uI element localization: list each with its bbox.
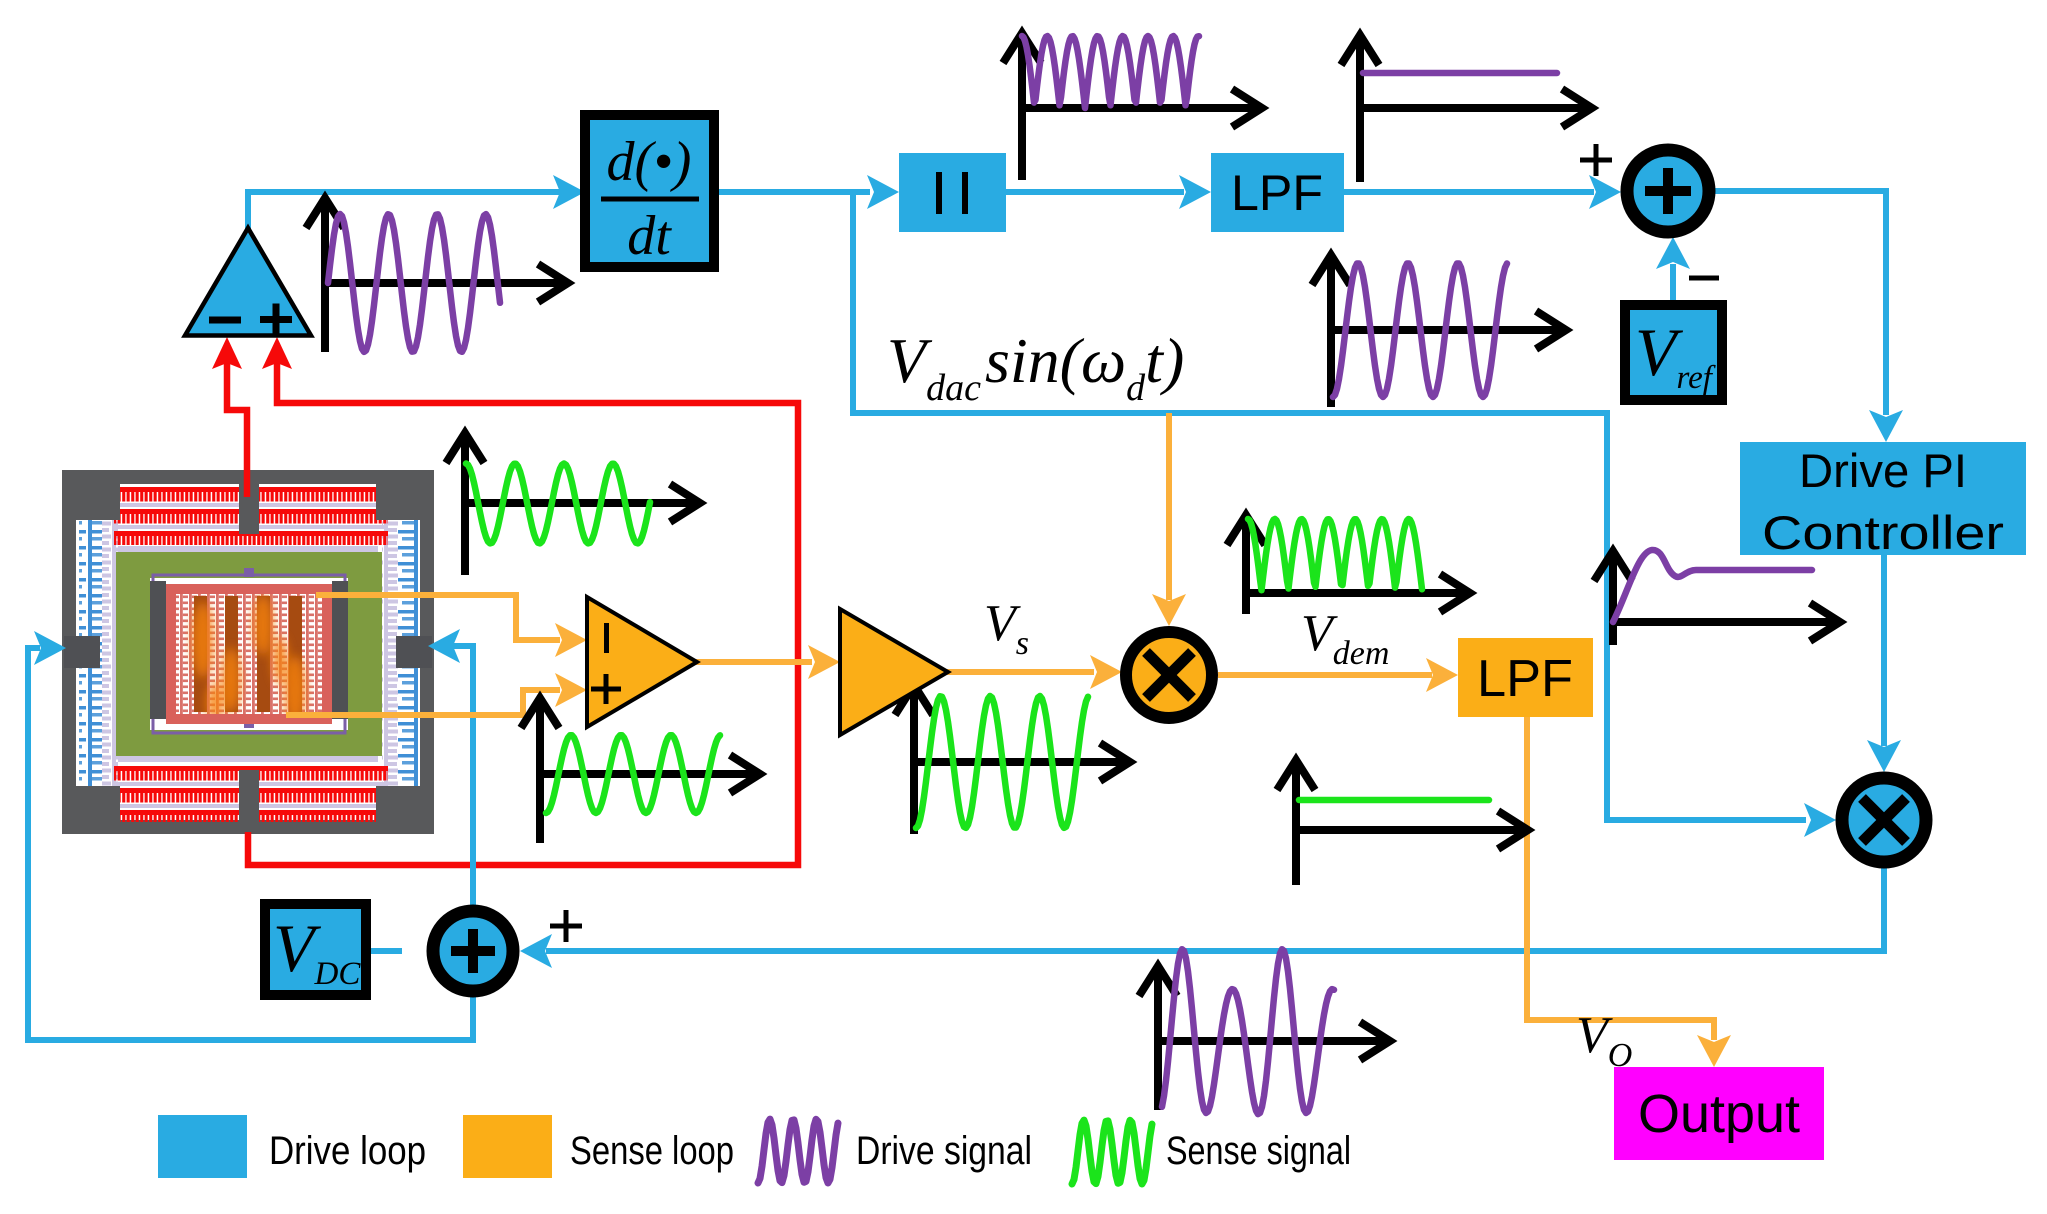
op-amp A1: instrumentation amplifier (orange) — [587, 597, 697, 727]
legend: Sense loop swatch — [463, 1115, 552, 1178]
graph: drive displacement sine (purple) at op-amp output — [321, 204, 329, 352]
graph: DC amplitude level after LPF — [1356, 41, 1364, 182]
svg-text:Sense loop: Sense loop — [570, 1129, 734, 1173]
block: absolute value | | — [899, 153, 1006, 232]
wire drive: LPF to summing junction — [1344, 189, 1594, 195]
amplifier A2: sense gain stage (orange) — [840, 609, 948, 735]
svg-text:d(•): d(•) — [607, 131, 692, 193]
wire drive: summer up to die right drive electrode — [452, 646, 473, 907]
svg-text:dt: dt — [627, 205, 672, 267]
wire drive: differentiator to absolute-value block — [714, 189, 870, 195]
label: minus sign at S1 — [1689, 276, 1719, 281]
block: Output — [1614, 1067, 1824, 1160]
wire sense: die sense electrode A to instrumentation amp minus — [316, 595, 560, 640]
svg-text:LPF: LPF — [1231, 165, 1323, 221]
block: sense LPF — [1458, 638, 1593, 717]
multiplier M1: sense demodulator (orange) — [1126, 632, 1212, 718]
svg-text:LPF: LPF — [1477, 650, 1573, 708]
block: VDC bias source — [265, 904, 366, 995]
graph: Vdac sine reference (purple) — [1327, 261, 1335, 407]
wire sense: LPF output Vo to Output block — [1527, 717, 1714, 1040]
wire sense: die sense electrode B to instrumentation amp plus — [286, 690, 560, 715]
block: drive LPF — [1211, 153, 1344, 232]
wire drive: summer down and around to die left drive electrode — [28, 648, 473, 1040]
label: plus sign at S2 — [550, 924, 582, 929]
legend: Sense signal green wave — [1072, 1120, 1152, 1184]
summing junction S1 (drive amplitude error) — [1627, 150, 1709, 232]
block: Vref reference — [1625, 305, 1722, 400]
svg-text:Output: Output — [1638, 1084, 1800, 1144]
wire red: die bottom electrode feedback loop to op-amp non-inverting input — [248, 360, 798, 865]
wire sense: instrumentation amp to gain stage — [694, 659, 812, 665]
summing junction S2: VDC bias adder — [433, 911, 513, 991]
legend: Drive signal purple wave — [758, 1119, 838, 1183]
svg-text:Controller: Controller — [1762, 506, 2004, 559]
label: plus sign at S1 — [1580, 158, 1612, 163]
svg-text:Sense signal: Sense signal — [1166, 1129, 1351, 1173]
graph: rectified drive signal after absolute value — [1018, 39, 1026, 180]
op-amp U1 front-end charge amplifier (blue triangle) — [185, 228, 311, 336]
graph: sense axis vibration (green) near die — [461, 439, 469, 575]
legend: Drive loop swatch — [158, 1115, 247, 1178]
wire red: die top electrode to op-amp inverting input — [227, 360, 247, 497]
wire sense: gain stage Vs to demodulating multiplier — [946, 669, 1094, 675]
wire drive: Vref to summing junction minus input — [1670, 264, 1676, 305]
wire sense: Vdac reference drop into demodulating multiplier — [1166, 413, 1172, 600]
graph: sense pickoff small signal (green) below instrumentation amp — [536, 704, 544, 843]
wire drive: VDC source into summer — [366, 948, 402, 954]
graph: amplified sense signal Vs (green) — [910, 691, 918, 834]
graph: filtered DC output level (green) — [1292, 766, 1300, 885]
wire sense: multiplier Vdem to sense LPF — [1218, 672, 1432, 678]
wire drive: op-amp output to differentiator — [248, 192, 560, 230]
wire drive: multiplier output to VDC summer — [546, 868, 1884, 951]
svg-text:Drive loop: Drive loop — [269, 1129, 426, 1173]
MEMS gyroscope die U3 — [62, 470, 434, 834]
wire drive: Drive PI controller to output multiplier — [1881, 555, 1887, 746]
graph: step response of drive PI (purple) — [1609, 557, 1617, 645]
graph: drive voltage sine (purple) at VDC summer output — [1154, 972, 1162, 1110]
svg-text:Drive signal: Drive signal — [856, 1129, 1032, 1173]
wire drive: absolute value to LPF — [1006, 189, 1184, 195]
block: Drive PI Controller — [1740, 442, 2026, 555]
block: differentiator d(.)/dt — [585, 115, 714, 267]
wire drive: summing junction to Drive PI controller — [1713, 191, 1886, 415]
multiplier M2: output modulator (blue) — [1842, 778, 1926, 862]
svg-text:Drive PI: Drive PI — [1799, 444, 1967, 497]
graph: demodulated Vdem humps (green) — [1242, 521, 1250, 614]
wire drive: branch node to sense demodulator reference — [853, 192, 1806, 820]
